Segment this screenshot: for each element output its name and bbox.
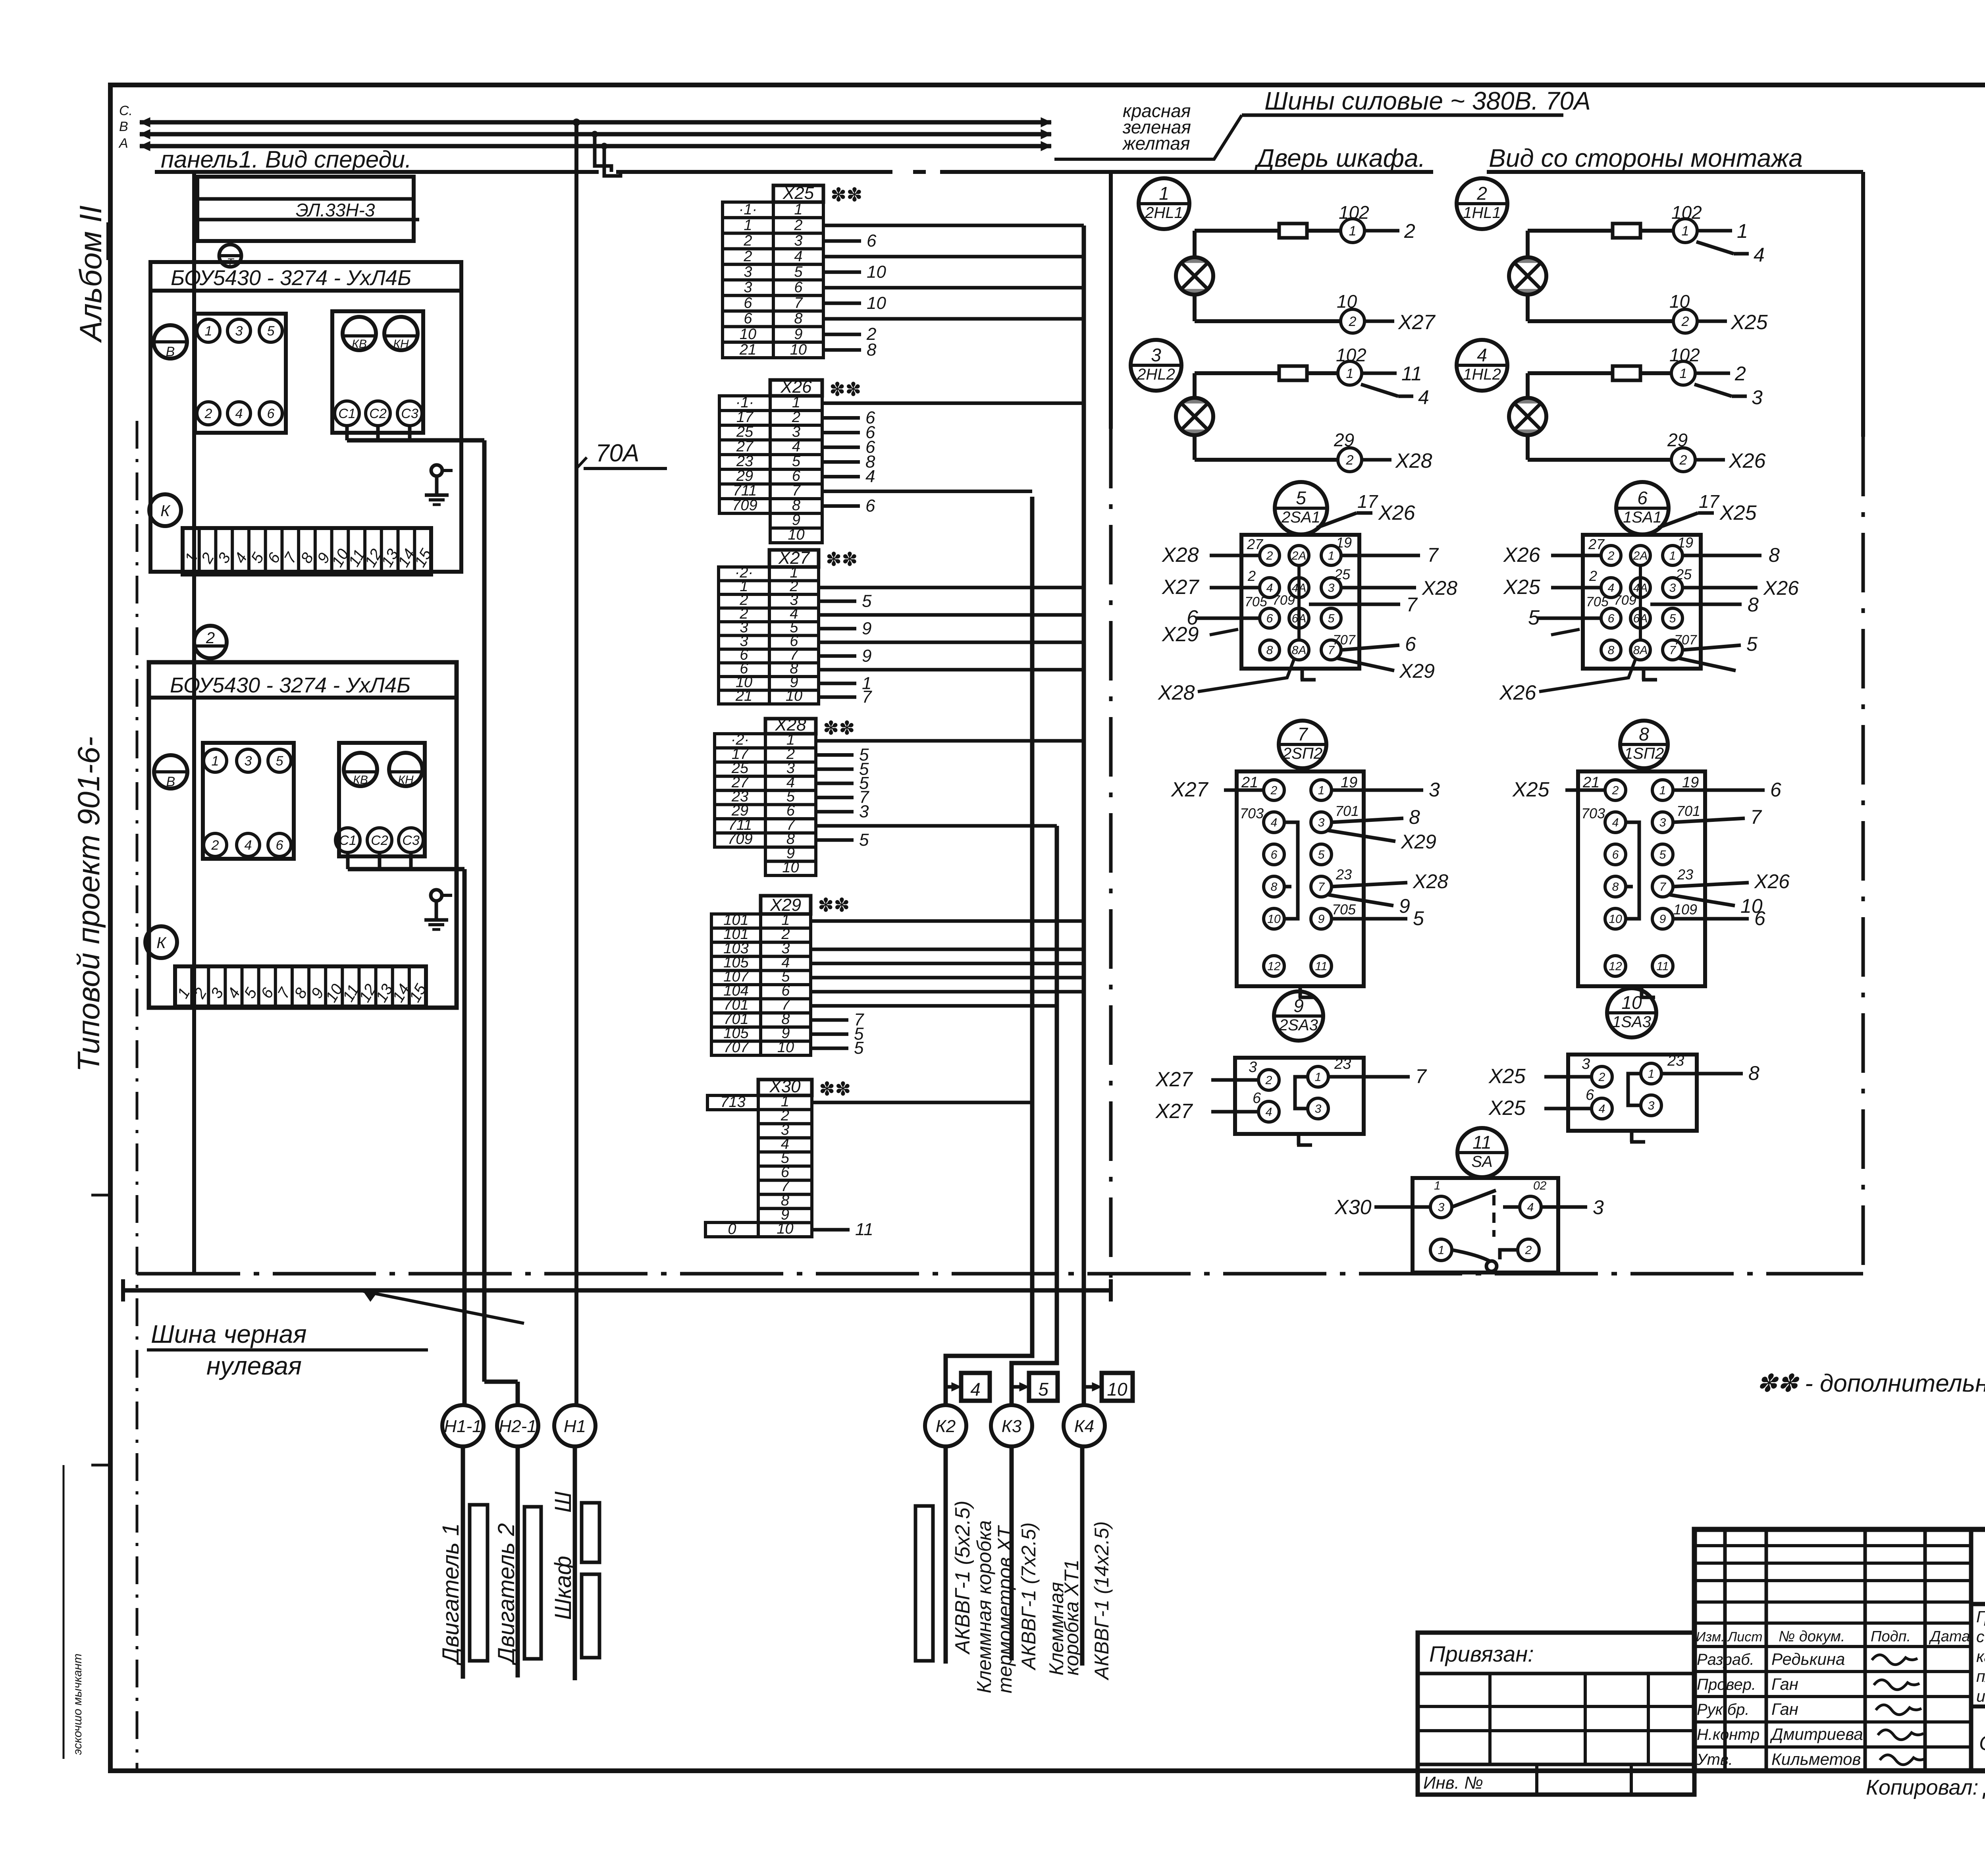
callout line under colour labels to bus title (1054, 115, 1242, 159)
svg-text:3: 3 (1315, 1103, 1322, 1116)
svg-text:Дата: Дата (1929, 1628, 1970, 1645)
power bus bar A (желтая) (140, 141, 1051, 151)
svg-text:1: 1 (212, 754, 219, 769)
wire stub X25 row 3 label 6 (823, 239, 861, 243)
wire top branch (1193, 373, 1197, 398)
wire stub X25 row 7 label 10 (823, 301, 861, 305)
wire X30 to SA terminal 3 (1374, 1205, 1430, 1209)
svg-text:эскочшо мычкант: эскочшо мычкант (71, 1654, 84, 1755)
top edge line of panel view box / label underline (155, 170, 599, 174)
svg-text:10: 10 (782, 859, 799, 876)
svg-text:709: 709 (1614, 593, 1636, 608)
shared boundary between panel view and door view (dash-dot) (1109, 172, 1113, 429)
terminal circle 2 with label 10 (1673, 309, 1697, 333)
wire top branch (1526, 373, 1530, 398)
terminal block X25 (773, 185, 823, 202)
wire X25 row 6 to collector (823, 286, 1084, 289)
svg-text:Ш: Ш (550, 1491, 576, 1513)
svg-text:ЭЛ.33Н-3: ЭЛ.33Н-3 (296, 200, 375, 220)
svg-text:2: 2 (1612, 784, 1619, 797)
svg-text:X27: X27 (1162, 576, 1200, 599)
title block outer box (1694, 1529, 1985, 1771)
svg-text:Утв.: Утв. (1696, 1751, 1733, 1768)
svg-text:3: 3 (1752, 386, 1763, 409)
collector wire to cable K4 (14x2.5) (1082, 226, 1086, 1405)
svg-text:2: 2 (1525, 1244, 1532, 1257)
svg-text:9: 9 (1293, 995, 1304, 1016)
svg-text:X27: X27 (1155, 1068, 1193, 1091)
svg-text:5: 5 (854, 1038, 864, 1058)
svg-text:X25: X25 (1719, 501, 1757, 524)
terminal block X29 (761, 896, 811, 914)
svg-text:✽✽: ✽✽ (829, 379, 861, 400)
wire to X27 (1364, 320, 1394, 323)
svg-text:КВ: КВ (352, 337, 367, 351)
current transformer T symbol (219, 241, 241, 268)
svg-text:БОУ5430 - 3274 - УхЛ4Б: БОУ5430 - 3274 - УхЛ4Б (171, 266, 411, 290)
wires 1SA3 left (1544, 1075, 1592, 1079)
panel 2 marker circle "2" (194, 626, 227, 658)
wire 2SA3 right (1328, 1075, 1410, 1079)
svg-text:1: 1 (1315, 1071, 1322, 1084)
wire to 11 (1362, 372, 1397, 375)
svg-text:12: 12 (1609, 960, 1622, 973)
svg-text:1SA3: 1SA3 (1612, 1013, 1651, 1031)
svg-text:8: 8 (867, 340, 877, 359)
svg-text:7: 7 (1659, 881, 1667, 894)
svg-text:4: 4 (794, 248, 802, 265)
svg-text:8: 8 (1748, 594, 1759, 616)
wire X27 row 2 to collector (819, 586, 1084, 589)
svg-text:7: 7 (1750, 806, 1762, 828)
svg-text:0: 0 (728, 1221, 736, 1238)
bus tap hook from bus B (595, 134, 611, 172)
terminal circle 1 with label 102 (1341, 219, 1364, 243)
wire stub X25 row 9 label 2 (823, 333, 861, 336)
svg-text:19: 19 (1677, 534, 1693, 551)
wire to X28 (1362, 458, 1391, 462)
svg-text:70А: 70А (595, 440, 639, 467)
wire stub X28 row 8 label 5 (816, 838, 854, 842)
svg-text:21: 21 (735, 688, 752, 704)
svg-text:SA: SA (1471, 1153, 1492, 1170)
svg-text:10: 10 (1609, 913, 1622, 926)
svg-text:Разраб.: Разраб. (1697, 1651, 1754, 1668)
terminal block X28 (765, 719, 816, 734)
svg-text:10: 10 (1267, 913, 1281, 926)
svg-text:8: 8 (1639, 724, 1649, 744)
svg-text:3: 3 (859, 802, 869, 821)
wire stub X26 row 5 label 8 (822, 460, 860, 464)
wires 2SA1 left side (1210, 554, 1260, 557)
position callout circle 3/2HL2 (1131, 340, 1181, 391)
bottom stub of 1SП2 (1640, 986, 1655, 997)
svg-text:02: 02 (1533, 1179, 1547, 1192)
svg-text:9: 9 (862, 646, 871, 665)
svg-text:3: 3 (1582, 1056, 1590, 1072)
svg-text:X25: X25 (1503, 576, 1541, 599)
svg-text:6: 6 (1271, 848, 1278, 862)
svg-text:6: 6 (1754, 907, 1765, 929)
svg-text:7: 7 (1427, 544, 1439, 566)
svg-text:6: 6 (267, 406, 275, 421)
svg-text:X29: X29 (1401, 831, 1436, 853)
svg-text:4: 4 (1527, 1201, 1534, 1214)
collector wire to cable K2 (946, 497, 1032, 1405)
svg-text:5: 5 (276, 754, 283, 769)
svg-text:5: 5 (1328, 612, 1335, 625)
K circle marker panel 1 (149, 494, 181, 526)
wires from С1 С2 С3 of panel 1 to collector (345, 426, 349, 440)
wire X25 row 4 to collector (823, 255, 1084, 258)
svg-text:КН: КН (393, 337, 409, 351)
wire stub X26 row 3 label 6 (822, 431, 860, 434)
svg-text:8А: 8А (1633, 644, 1648, 657)
svg-text:2SA3: 2SA3 (1279, 1016, 1318, 1034)
svg-text:Провер.: Провер. (1697, 1676, 1756, 1693)
wire X29 row 5 to collector (811, 976, 1084, 979)
svg-text:6: 6 (1266, 612, 1273, 625)
wire X30 row 1 to collector (812, 1101, 1032, 1104)
svg-text:5: 5 (792, 453, 801, 470)
svg-text:К: К (156, 934, 167, 952)
H1 feeder continues from 70A wire (575, 1404, 576, 1407)
svg-text:X26: X26 (1754, 870, 1790, 893)
svg-text:6: 6 (744, 295, 752, 311)
svg-text:X27: X27 (1398, 311, 1436, 334)
svg-text:1: 1 (1318, 784, 1325, 797)
svg-text:2: 2 (1679, 453, 1687, 468)
svg-text:25: 25 (1334, 566, 1351, 582)
svg-text:X27: X27 (1171, 778, 1209, 801)
svg-text:8: 8 (1612, 881, 1619, 894)
svg-text:В: В (166, 344, 175, 359)
svg-text:2: 2 (1589, 568, 1597, 584)
svg-text:1: 1 (1659, 784, 1666, 797)
wire top branch (1193, 231, 1197, 257)
wire top branch (1526, 231, 1530, 257)
svg-text:3: 3 (744, 279, 752, 296)
wire stub X28 row 5 label 7 (816, 796, 854, 799)
wire stub X30 row 10 label 11 (812, 1228, 850, 1232)
svg-text:8: 8 (1748, 1062, 1760, 1084)
svg-text:2: 2 (1404, 220, 1415, 242)
svg-text:9: 9 (794, 326, 802, 343)
svg-text:29: 29 (1667, 430, 1688, 450)
svg-text:4: 4 (245, 838, 252, 853)
svg-text:из железобетонных элементов.: из железобетонных элементов. (1976, 1687, 1985, 1705)
svg-text:Рук.бр.: Рук.бр. (1697, 1701, 1750, 1718)
svg-text:КВ: КВ (353, 773, 368, 787)
bottom edge of panel and door boxes (dash-dot) (137, 1272, 1863, 1276)
svg-text:X28: X28 (1413, 870, 1448, 893)
svg-text:С1: С1 (339, 833, 356, 848)
svg-text:5: 5 (1528, 606, 1540, 629)
svg-text:10: 10 (777, 1220, 793, 1237)
power bus bar B (зеленая) (140, 129, 1051, 139)
svg-text:707: 707 (723, 1039, 749, 1056)
svg-text:102: 102 (1671, 202, 1702, 223)
ballast resistor (1279, 224, 1307, 238)
document number ТП.901 6-85.86-ЭП33И-5 (1969, 1529, 1973, 1771)
svg-text:1: 1 (794, 201, 802, 218)
lamp symbol 2HL2 (1176, 398, 1213, 435)
svg-text:23: 23 (1677, 866, 1693, 883)
70A feeder wire from bus C down to cabinet H1 (574, 122, 578, 1405)
svg-text:17: 17 (1357, 491, 1378, 512)
wire X28 row 7 to collector (816, 824, 1057, 828)
svg-text:25: 25 (736, 424, 754, 440)
svg-text:3: 3 (1438, 1201, 1445, 1214)
wire X29 row 7 to collector (811, 1004, 1057, 1008)
svg-text:X29: X29 (1162, 623, 1199, 646)
svg-text:9: 9 (1659, 913, 1666, 926)
leader arrow to neutral bus (363, 1291, 524, 1323)
svg-text:3: 3 (792, 424, 800, 440)
svg-text:Кильметов: Кильметов (1771, 1750, 1861, 1768)
wires 1SA1 right side (1682, 554, 1761, 557)
svg-text:X28: X28 (1158, 681, 1195, 704)
wires from С1 С2 С3 of panel 2 to collector (346, 852, 350, 869)
svg-text:Двигатель 1: Двигатель 1 (438, 1523, 464, 1666)
svg-text:1SA1: 1SA1 (1623, 509, 1662, 526)
svg-text:8А: 8А (1292, 644, 1307, 657)
svg-text:Шины силовые ~ 380В. 70А: Шины силовые ~ 380В. 70А (1264, 87, 1591, 115)
cable marker circle K3 (991, 1405, 1032, 1446)
position callout circle 1/2HL1 (1139, 178, 1189, 229)
svg-text:С3: С3 (402, 833, 420, 848)
control unit panel 1 БОУ5430-3274-УхЛ4Б (150, 262, 461, 572)
svg-text:4: 4 (970, 1379, 981, 1400)
svg-text:1HL2: 1HL2 (1463, 366, 1501, 383)
wire stub X27 row 5 label 9 (819, 627, 856, 630)
wire X27 row 4 to collector (819, 613, 1084, 617)
black neutral bus (шина черная нулевая) (123, 1288, 1111, 1293)
svg-text:3: 3 (1659, 816, 1666, 829)
svg-text:709: 709 (732, 497, 757, 514)
svg-text:3: 3 (1648, 1099, 1655, 1112)
svg-text:5: 5 (1669, 612, 1676, 625)
svg-text:709: 709 (727, 831, 752, 848)
svg-text:4: 4 (1271, 816, 1278, 829)
svg-text:2HL2: 2HL2 (1137, 366, 1175, 383)
callout circle 10/1SA3 (1607, 988, 1656, 1037)
wire X25 row 8 to collector (823, 317, 1084, 321)
K circle marker panel 2 (145, 926, 177, 958)
wire stub X29 row 8 label 7 (811, 1018, 848, 1022)
svg-text:АКВВГ-1 (7х2.5): АКВВГ-1 (7х2.5) (1018, 1522, 1040, 1671)
svg-text:8: 8 (794, 310, 802, 327)
internal link bracket of 2SП2 (1284, 822, 1298, 919)
svg-text:2: 2 (743, 248, 752, 265)
svg-text:7: 7 (792, 482, 801, 499)
svg-text:нулевая: нулевая (206, 1352, 302, 1380)
svg-text:2: 2 (1266, 549, 1273, 563)
svg-text:X27: X27 (1155, 1100, 1193, 1123)
internal bracket 2SA3 (1295, 1077, 1308, 1109)
svg-text:9: 9 (1399, 895, 1410, 917)
svg-text:2: 2 (743, 233, 752, 249)
cable lines below K circles (944, 1446, 948, 1664)
svg-text:✽✽: ✽✽ (826, 549, 858, 570)
wire 2SП2 left (1224, 789, 1264, 792)
cable marker circle H1-1 (442, 1405, 484, 1446)
bottom stub of 2SA1 (1301, 669, 1316, 680)
svg-text:2SA1: 2SA1 (1281, 509, 1320, 526)
svg-text:Шкаф: Шкаф (550, 1556, 576, 1620)
bottom stub of 2SП2 (1299, 986, 1314, 997)
wire X25 row 2 to collector (823, 224, 1084, 227)
wire stub X27 row 3 label 5 (819, 600, 856, 603)
svg-text:2: 2 (792, 409, 800, 426)
wire stub X27 row 7 label 9 (819, 654, 856, 658)
svg-text:3: 3 (235, 324, 243, 339)
lamp symbol 1HL2 (1509, 398, 1546, 435)
svg-text:23: 23 (736, 453, 753, 470)
svg-text:4: 4 (1754, 244, 1765, 266)
internal bracket 1SA3 (1628, 1074, 1641, 1105)
wire X27 row 8 to collector (819, 668, 1084, 671)
wire stub X28 row 3 label 5 (816, 767, 854, 771)
svg-text:5: 5 (267, 324, 275, 339)
cable marker circle H2-1 (497, 1405, 538, 1446)
callout circle 9/2SA3 (1274, 991, 1323, 1041)
svg-text:10: 10 (777, 1039, 794, 1056)
svg-text:Н2-1: Н2-1 (499, 1417, 536, 1436)
terminal strip 1..15 of panel 2 (175, 966, 426, 1006)
svg-text:X25: X25 (1731, 311, 1768, 334)
svg-text:703: 703 (1581, 805, 1605, 821)
svg-text:6: 6 (276, 838, 283, 853)
bottom stub of 1SA1 (1642, 669, 1657, 680)
svg-text:707: 707 (1333, 632, 1356, 648)
svg-text:5: 5 (794, 264, 803, 280)
terminal circle 1 with label 102 (1338, 361, 1362, 385)
svg-text:10: 10 (786, 688, 802, 704)
svg-text:109: 109 (1673, 901, 1697, 918)
panel 2 neutral collector wire down to H1-1 (463, 869, 467, 1405)
svg-text:7: 7 (1297, 724, 1308, 744)
svg-text:Инв. №: Инв. № (1423, 1773, 1483, 1793)
svg-text:✽✽: ✽✽ (831, 185, 862, 206)
svg-text:2: 2 (1346, 453, 1354, 468)
ballast resistor (1613, 224, 1640, 238)
svg-text:10: 10 (788, 526, 804, 543)
svg-text:Шина черная: Шина черная (151, 1320, 306, 1348)
svg-text:X26: X26 (1378, 501, 1415, 524)
svg-text:5: 5 (859, 830, 869, 850)
wire stub X28 row 2 label 5 (816, 753, 854, 757)
wire to 1 (1697, 229, 1732, 233)
relay base 2 of panel 2 with КВ КН and С1 С2 С3 (339, 743, 425, 856)
bus tap hook from bus A (604, 146, 621, 176)
svg-text:Ган: Ган (1771, 1675, 1798, 1693)
svg-text:капельная с секциями: капельная с секциями (1976, 1647, 1985, 1666)
title block revision columns (1723, 1529, 1727, 1771)
svg-text:Подп.: Подп. (1871, 1628, 1911, 1645)
wire X28 row 1 to collector (816, 739, 1084, 742)
svg-text:3: 3 (245, 754, 252, 769)
svg-text:коробка ХТ1: коробка ХТ1 (1060, 1560, 1083, 1675)
svg-text:X28: X28 (1395, 449, 1432, 472)
svg-text:9: 9 (792, 512, 800, 528)
svg-text:4: 4 (1599, 1103, 1605, 1116)
panel view box left edge (192, 172, 196, 1274)
svg-text:3: 3 (1151, 345, 1161, 365)
svg-text:В: В (119, 119, 128, 134)
svg-text:Копировал: Доценко.: Копировал: Доценко. (1866, 1776, 1985, 1799)
svg-text:Дмитриева: Дмитриева (1770, 1725, 1863, 1743)
lamp symbol 2HL1 (1176, 257, 1213, 295)
second output wire (1694, 384, 1732, 396)
svg-text:8: 8 (792, 497, 800, 514)
cable lines below H circles (461, 1446, 465, 1679)
wires 2SП2 right (1332, 789, 1423, 792)
svg-text:✽✽: ✽✽ (818, 895, 850, 916)
svg-text:102: 102 (1339, 202, 1369, 223)
svg-text:27: 27 (1588, 536, 1605, 552)
svg-text:термометров ХТ: термометров ХТ (994, 1525, 1016, 1693)
terminal strip 1..15 of panel 1 (183, 528, 431, 575)
tie-in box Привязан: (1418, 1633, 1694, 1795)
svg-text:23: 23 (1336, 866, 1352, 883)
svg-text:2: 2 (1681, 314, 1689, 329)
svg-text:6: 6 (1637, 488, 1648, 508)
svg-text:1: 1 (1648, 1068, 1655, 1081)
svg-text:8: 8 (1266, 644, 1273, 657)
wire X29 row 6 to collector (811, 990, 1084, 993)
svg-text:·1·: ·1· (736, 394, 754, 411)
svg-text:5: 5 (1413, 907, 1424, 929)
svg-text:10: 10 (1337, 291, 1357, 312)
svg-text:площадью 24м² с каркасом: площадью 24м² с каркасом (1976, 1667, 1985, 1685)
svg-text:1: 1 (1159, 183, 1169, 204)
svg-text:К4: К4 (1074, 1417, 1094, 1436)
svg-text:1: 1 (744, 217, 752, 233)
svg-text:с вентиляторами 3ВГ25: с вентиляторами 3ВГ25 (1976, 1627, 1985, 1646)
callout circle 6/1SA1 (1616, 482, 1669, 534)
svg-text:1: 1 (1434, 1179, 1441, 1192)
svg-text:21: 21 (739, 341, 756, 358)
terminal circle 1 with label 102 (1671, 361, 1695, 385)
svg-text:705: 705 (1332, 901, 1356, 918)
wire to 2 (1695, 372, 1730, 375)
bottom pole with pivot (1452, 1250, 1490, 1261)
svg-text:2А: 2А (1633, 549, 1648, 563)
wire stub X26 row 6 label 4 (822, 475, 860, 478)
svg-text:Дверь шкафа.: Дверь шкафа. (1254, 144, 1425, 172)
fold mark dash-dot vertical line (136, 421, 139, 1770)
power bus bar C (красная) ~380V (140, 118, 1051, 127)
svg-text:2: 2 (211, 838, 219, 853)
wires 1SП2 right (1673, 789, 1765, 792)
svg-text:Лист: Лист (1727, 1629, 1763, 1645)
svg-text:1: 1 (1349, 224, 1357, 239)
wire stub X26 row 4 label 6 (822, 445, 860, 449)
svg-text:Н1-1: Н1-1 (444, 1417, 482, 1436)
svg-text:6: 6 (1608, 612, 1615, 625)
svg-text:4: 4 (235, 406, 243, 421)
wire stub X26 row 2 label 6 (822, 416, 860, 420)
svg-text:2: 2 (1265, 1074, 1272, 1087)
wire to X25 (1697, 320, 1727, 323)
destination box 4 with arrow from K2 wire (946, 1385, 958, 1389)
wire stub X29 row 9 label 5 (811, 1032, 848, 1036)
svg-text:701: 701 (1335, 803, 1359, 819)
svg-text:С.: С. (119, 103, 133, 118)
ballast resistor (1613, 366, 1640, 380)
svg-text:X25: X25 (782, 183, 814, 203)
